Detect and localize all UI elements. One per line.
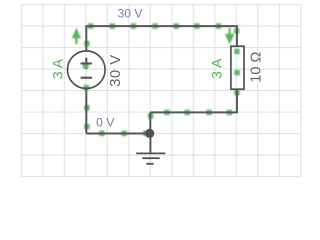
wire xyxy=(236,26,238,46)
voltage source xyxy=(68,51,106,89)
wire xyxy=(85,26,87,51)
wire xyxy=(150,111,238,113)
wire xyxy=(85,25,237,27)
wire xyxy=(86,133,150,135)
svg-text:3 A: 3 A xyxy=(208,58,224,79)
resistor xyxy=(231,46,244,89)
svg-text:30 V: 30 V xyxy=(107,54,124,86)
wire xyxy=(85,88,87,133)
current arrow (source branch) xyxy=(72,28,81,45)
svg-text:10 Ω: 10 Ω xyxy=(248,52,264,83)
wire xyxy=(236,89,238,113)
current flow dots xyxy=(83,23,240,136)
node junction xyxy=(145,129,154,138)
svg-text:0 V: 0 V xyxy=(96,116,115,130)
wire xyxy=(149,112,151,133)
svg-text:3 A: 3 A xyxy=(50,58,66,79)
svg-text:30 V: 30 V xyxy=(117,7,143,21)
current arrow (resistor branch) xyxy=(225,28,235,45)
ground xyxy=(136,133,165,164)
